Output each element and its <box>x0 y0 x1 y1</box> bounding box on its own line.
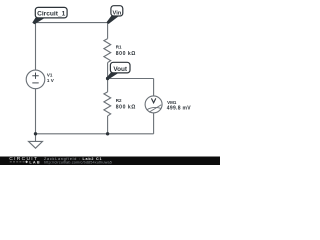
footer credit text <box>44 157 112 165</box>
wire left upper <box>35 23 37 70</box>
node junction dot bottom R2 <box>106 132 109 135</box>
node label Vout <box>106 62 130 80</box>
resistor R1 <box>104 39 136 63</box>
footer bar <box>0 157 220 166</box>
svg-text:800 kΩ: 800 kΩ <box>116 51 136 57</box>
svg-text:LAB: LAB <box>29 161 40 165</box>
wire voltmeter lower <box>153 113 155 134</box>
svg-text:R2: R2 <box>116 98 122 103</box>
wire Vout to voltmeter <box>108 78 154 80</box>
wire bottom <box>36 133 154 135</box>
resistor R2 <box>104 92 136 116</box>
svg-text:800 kΩ: 800 kΩ <box>116 105 136 111</box>
svg-text:Circuit_1: Circuit_1 <box>37 11 66 18</box>
wire R2-bottom <box>107 116 109 134</box>
svg-text:http://circuitlab.com/c/bd854x: http://circuitlab.com/c/bd854xuthuwa5 <box>44 161 112 165</box>
node label Circuit_1 <box>32 7 67 24</box>
node junction dot Vout <box>106 77 109 80</box>
svg-text:Vout: Vout <box>113 66 128 73</box>
wire left lower <box>35 89 37 134</box>
wire voltmeter upper <box>153 79 155 96</box>
svg-text:R1: R1 <box>116 45 122 50</box>
wire R1-Vout <box>107 63 109 79</box>
svg-text:499.8 mV: 499.8 mV <box>167 106 191 112</box>
wire top (Vin net) <box>36 22 108 24</box>
wire ground stub <box>35 134 37 142</box>
node junction dot bottom-left <box>34 132 37 135</box>
node label Vin <box>107 6 123 24</box>
wire right upper <box>107 23 109 39</box>
svg-text:VM1: VM1 <box>167 100 177 105</box>
voltage source V1 <box>26 70 55 89</box>
wire Vout-R2 <box>107 79 109 92</box>
voltmeter VM1 <box>145 96 191 113</box>
CircuitLab logo <box>9 156 41 165</box>
svg-text:1 V: 1 V <box>47 78 55 83</box>
svg-text:Vin: Vin <box>113 10 122 16</box>
svg-text:V1: V1 <box>47 72 53 77</box>
ground <box>29 141 43 148</box>
